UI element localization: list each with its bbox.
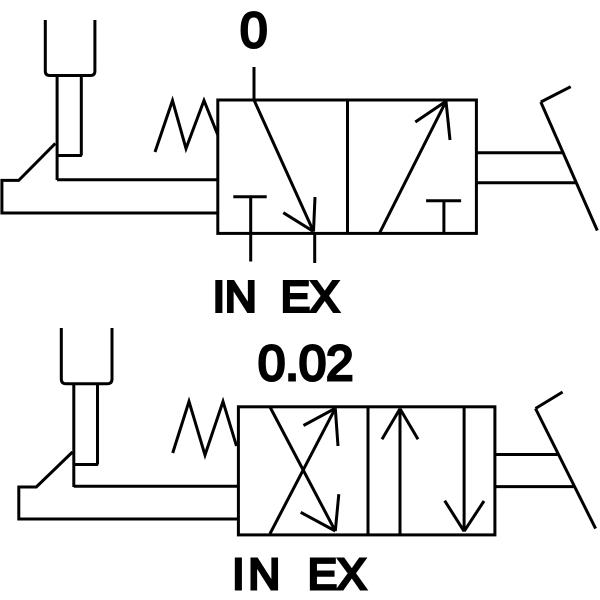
svg-text:IN: IN [213,273,257,322]
svg-text:0.02: 0.02 [258,337,353,391]
svg-text:IN: IN [232,550,284,599]
svg-text:EX: EX [308,550,367,599]
svg-text:0: 0 [240,4,267,58]
svg-text:EX: EX [281,273,340,322]
